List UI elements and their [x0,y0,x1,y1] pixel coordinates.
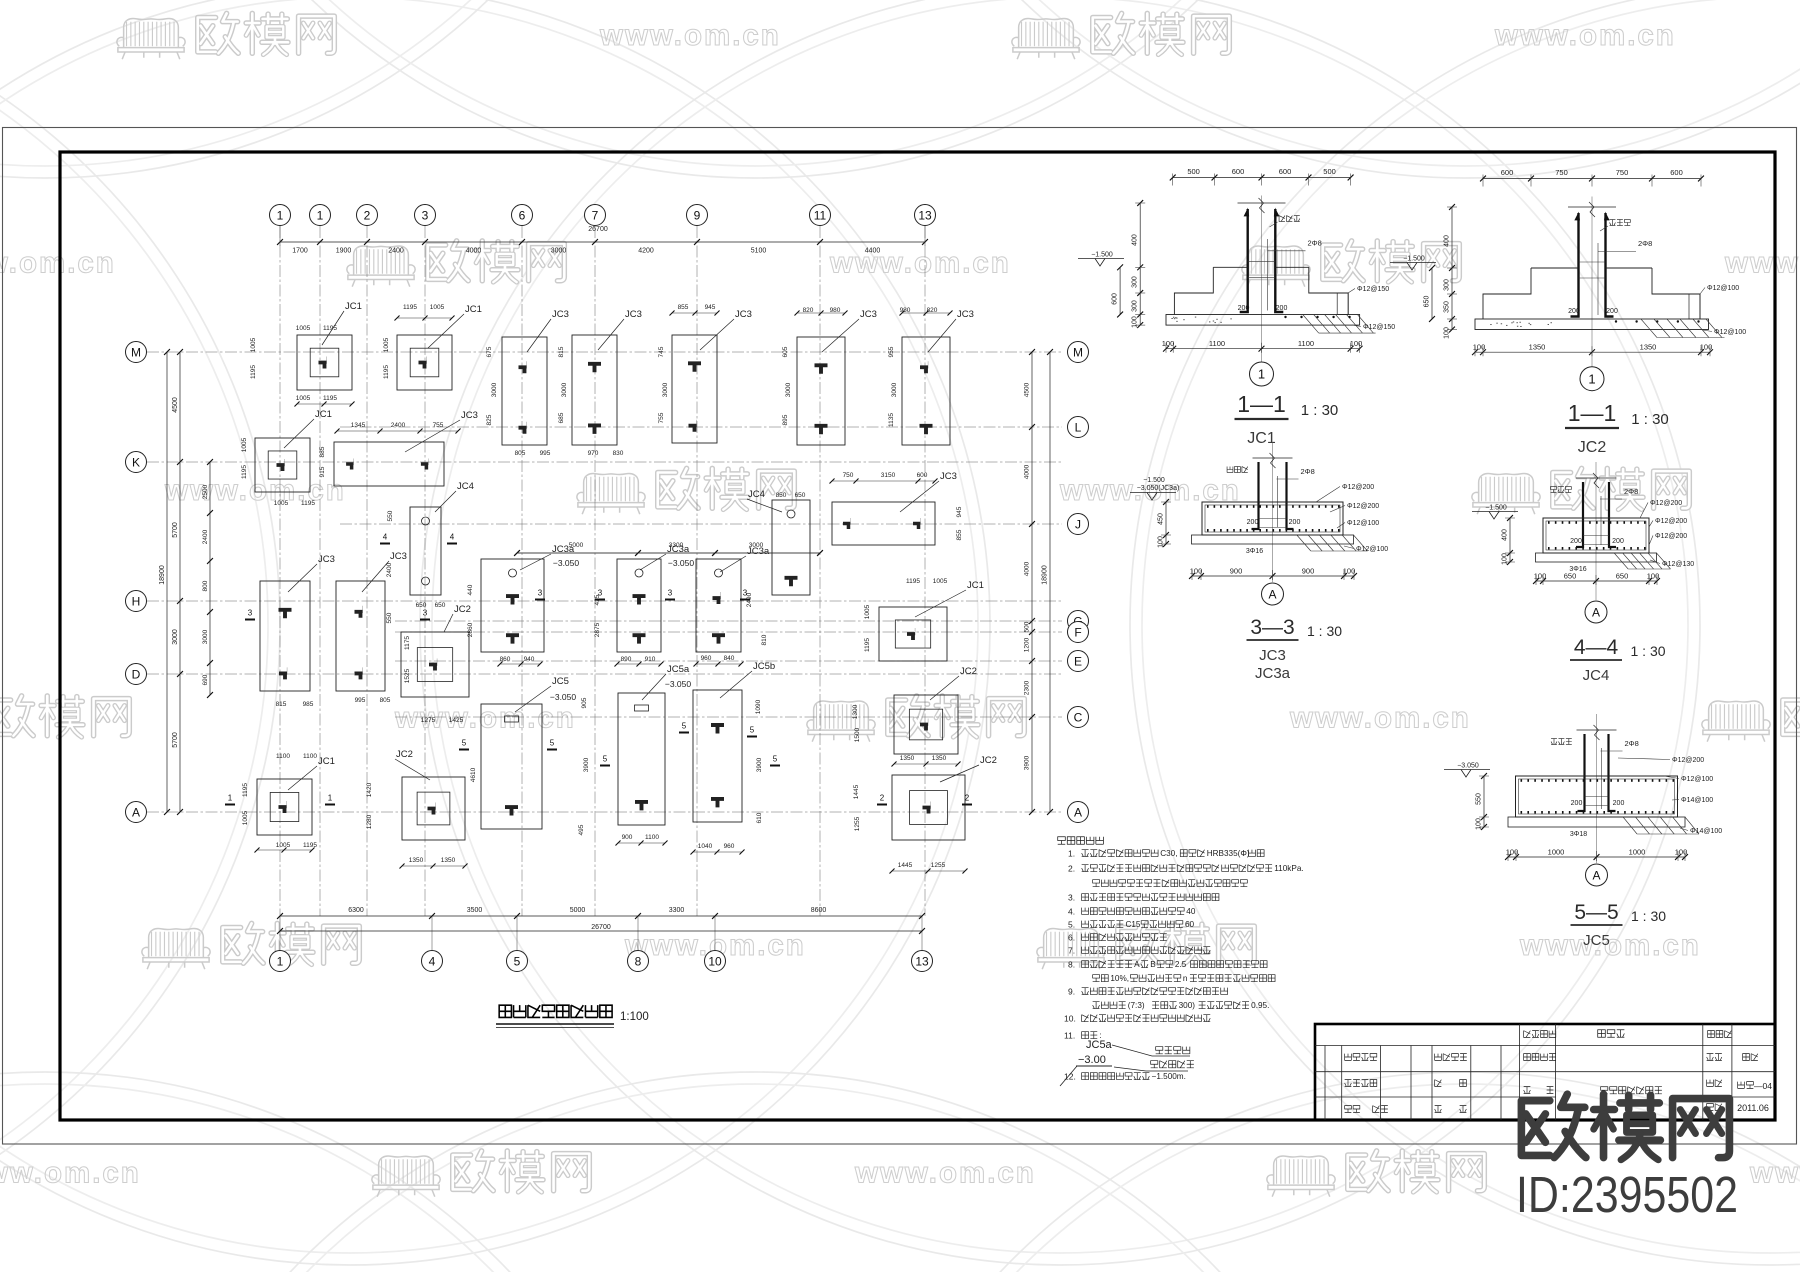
svg-text:2860: 2860 [467,622,474,637]
grid axis lines [147,226,1062,950]
foundation notes [1058,837,1304,1086]
svg-text:JC1: JC1 [315,409,332,420]
svg-text:JC4: JC4 [748,489,765,500]
svg-text:JC3: JC3 [390,551,407,562]
svg-text:−1.500m.: −1.500m. [1152,1072,1186,1081]
svg-text:3000: 3000 [891,382,898,397]
svg-text:Φ12@200: Φ12@200 [1342,484,1374,491]
svg-text:1350: 1350 [900,755,915,762]
page inner thick border [60,152,1775,1120]
svg-text:815: 815 [558,346,565,357]
svg-text:www.om.cn: www.om.cn [0,1157,141,1190]
grid circles bottom [270,951,933,972]
svg-text:4500: 4500 [1024,382,1031,397]
footing JC1 grid1/M [297,335,352,390]
svg-text:800: 800 [202,580,209,591]
svg-text:1100: 1100 [303,753,317,760]
footing JC5 grid5 [481,704,542,829]
svg-text:−3.050(JC3a): −3.050(JC3a) [1137,485,1180,492]
svg-text:945: 945 [956,506,963,517]
svg-text:3300: 3300 [669,542,684,549]
svg-text:850: 850 [776,492,787,499]
svg-text:1005: 1005 [274,500,289,507]
grid circles top [270,205,936,226]
svg-text:1000: 1000 [1629,848,1646,857]
svg-text:Φ12@130: Φ12@130 [1662,561,1694,568]
svg-text:M: M [131,345,141,359]
svg-text:5: 5 [462,739,467,748]
svg-text:A: A [1134,960,1140,969]
detail section 1-1 JC2 [1390,168,1746,456]
svg-text:1350: 1350 [441,857,456,864]
svg-text:4200: 4200 [638,248,654,255]
svg-text:JC5: JC5 [1583,932,1610,949]
footing JC1 grid1/K [255,438,310,492]
svg-text:200: 200 [1247,519,1259,526]
svg-text:1195: 1195 [250,365,257,379]
svg-text:100: 100 [1476,818,1483,830]
footing JC1 right/G [879,607,947,661]
footing JC5a grid8 [618,693,665,825]
svg-text:5: 5 [603,755,608,764]
svg-text:650: 650 [1424,296,1431,308]
svg-text:HRB335(Φ): HRB335(Φ) [1207,849,1250,858]
svg-text:2300: 2300 [1024,680,1031,695]
svg-text:830: 830 [613,450,624,457]
svg-text:Φ12@100: Φ12@100 [1707,285,1739,292]
svg-text:7: 7 [592,208,599,222]
extra small dim lines [254,310,967,873]
svg-text:18900: 18900 [159,565,166,585]
svg-text:495: 495 [578,824,585,835]
svg-text:900: 900 [1230,567,1243,576]
svg-text:400: 400 [1502,529,1509,541]
svg-text:745: 745 [658,346,665,357]
svg-text:350: 350 [1444,301,1451,313]
title block table [1315,1024,1775,1120]
svg-text:−1.500: −1.500 [1485,505,1507,512]
footing JC2 right/C [894,695,958,754]
svg-text:3900: 3900 [1024,755,1031,770]
svg-text:2Φ8: 2Φ8 [1308,238,1322,247]
svg-text:9.: 9. [1068,987,1075,997]
svg-text:www.om.cn: www.om.cn [1724,247,1800,280]
footing JC3 J horizontal [832,502,935,545]
svg-text:200: 200 [1613,800,1625,807]
svg-text:11.: 11. [1064,1031,1075,1041]
svg-text:970: 970 [588,450,599,457]
svg-text:10.: 10. [1064,1014,1076,1024]
svg-text:650: 650 [1616,572,1629,581]
svg-text:1005: 1005 [242,810,249,825]
svg-text:3900: 3900 [756,757,763,772]
svg-text:1090: 1090 [755,699,762,714]
svg-text:100: 100 [1190,567,1203,576]
svg-text:1005: 1005 [864,604,871,619]
svg-text:12.: 12. [1064,1072,1076,1082]
svg-text:600: 600 [1279,167,1292,176]
svg-text:2.: 2. [1068,864,1075,874]
svg-text:895: 895 [782,414,789,425]
svg-text:905: 905 [581,697,588,708]
svg-text:A: A [1074,805,1082,819]
svg-text:4000: 4000 [1024,561,1031,576]
svg-text:−3.00: −3.00 [1078,1054,1106,1066]
footing JC1 grid3/M [397,335,452,390]
svg-text:2011.06: 2011.06 [1737,1103,1769,1113]
svg-text:1: 1 [317,208,324,222]
svg-text:840: 840 [724,655,735,662]
svg-text:A: A [132,805,140,819]
svg-text:5000: 5000 [570,907,586,914]
svg-text:855: 855 [678,304,689,311]
svg-text:1195: 1195 [864,638,871,652]
svg-text:4.: 4. [1068,907,1075,917]
svg-text:1195: 1195 [383,365,390,379]
svg-text:1195: 1195 [301,500,315,507]
svg-text:1: 1 [228,794,233,803]
svg-text:13: 13 [918,208,932,222]
svg-text:F: F [1074,625,1081,639]
svg-text:JC5a: JC5a [667,664,690,675]
svg-text:D: D [132,667,141,681]
svg-text:5.: 5. [1068,920,1075,930]
svg-text:Φ12@200: Φ12@200 [1655,533,1687,540]
svg-text:815: 815 [276,701,287,708]
svg-text:3Φ18: 3Φ18 [1570,831,1587,838]
svg-text:100: 100 [1700,343,1713,352]
svg-text:890: 890 [621,656,632,663]
svg-text:JC1: JC1 [465,304,482,315]
footing JC3 grid9/M [672,335,717,443]
svg-text:0.95.: 0.95. [1251,1001,1269,1010]
svg-text:1005: 1005 [430,304,445,311]
svg-text:450: 450 [1158,513,1165,525]
svg-text:300): 300) [1179,1001,1196,1010]
svg-text:2400: 2400 [386,562,393,577]
svg-text:1445: 1445 [898,862,913,869]
svg-text:550: 550 [387,510,394,521]
svg-text:1005: 1005 [241,437,248,452]
svg-text:110kPa.: 110kPa. [1274,864,1303,873]
svg-text:3.: 3. [1068,893,1075,903]
svg-text:1—1: 1—1 [1568,400,1617,426]
footing JC3 grid1/H-D [260,581,310,691]
svg-text:−1.500: −1.500 [1403,256,1425,263]
svg-text:1195: 1195 [303,842,317,849]
svg-text:400: 400 [1132,234,1139,246]
svg-text:3000: 3000 [662,382,669,397]
svg-text:200: 200 [1238,305,1250,312]
svg-text:−1.500: −1.500 [1143,477,1165,484]
svg-text:685: 685 [558,412,565,423]
svg-text:3500: 3500 [467,907,483,914]
svg-text:8: 8 [635,954,642,968]
svg-text:400: 400 [1444,235,1451,247]
svg-text:300: 300 [1132,276,1139,288]
svg-text:10: 10 [708,954,722,968]
svg-text:1:100: 1:100 [620,1011,649,1023]
svg-text:5: 5 [682,722,687,731]
svg-text:5000: 5000 [569,542,584,549]
svg-text:915: 915 [319,466,326,477]
svg-text:100: 100 [1647,572,1660,581]
svg-text:JC5: JC5 [552,676,569,687]
svg-text:3—3: 3—3 [1250,616,1294,639]
svg-text:JC2: JC2 [960,666,977,677]
svg-text:www.om.cn: www.om.cn [599,19,781,52]
svg-text:1.: 1. [1068,849,1075,859]
svg-text:1: 1 [1258,367,1265,382]
svg-text:1100: 1100 [1298,339,1314,348]
svg-text:Φ12@100: Φ12@100 [1681,776,1713,783]
svg-text:675: 675 [486,346,493,357]
svg-text:600: 600 [1232,167,1245,176]
svg-text:5: 5 [750,726,755,735]
svg-text:1 : 30: 1 : 30 [1631,908,1666,924]
svg-text:1300: 1300 [852,704,859,719]
svg-text:1: 1 [1588,371,1595,386]
svg-text:www.om.cn: www.om.cn [0,247,116,280]
svg-text:3000: 3000 [749,542,764,549]
svg-text:1525: 1525 [404,668,411,683]
svg-text:605: 605 [782,346,789,357]
svg-text:1350: 1350 [1640,343,1657,352]
svg-text:100: 100 [1534,572,1547,581]
svg-text:3: 3 [248,609,253,618]
svg-text:200: 200 [1606,308,1618,315]
grid circles left [126,342,147,823]
svg-text:500: 500 [1323,167,1336,176]
svg-text:3000: 3000 [491,382,498,397]
svg-text:www.om.cn: www.om.cn [1494,19,1676,52]
svg-text:960: 960 [724,843,735,850]
svg-text:600: 600 [1501,168,1514,177]
svg-text:JC2: JC2 [1578,439,1607,456]
svg-text:3900: 3900 [583,757,590,772]
svg-text:1700: 1700 [292,248,308,255]
svg-text:985: 985 [303,701,314,708]
svg-text:1135: 1135 [888,413,895,427]
svg-text:1280: 1280 [366,814,373,829]
svg-text:805: 805 [380,697,391,704]
svg-text:Φ12@200: Φ12@200 [1650,500,1682,507]
svg-text:550: 550 [386,612,393,623]
svg-text:200: 200 [1568,308,1580,315]
svg-text:610: 610 [756,812,763,823]
svg-text:JC2: JC2 [454,604,471,615]
svg-text:690: 690 [202,674,209,685]
svg-text:26700: 26700 [588,226,608,233]
svg-text:3000: 3000 [561,382,568,397]
svg-text:—04: —04 [1754,1081,1772,1091]
svg-text:M: M [1073,345,1083,359]
svg-text:2500: 2500 [202,484,209,499]
svg-text:−3.050: −3.050 [553,558,580,568]
svg-text:440: 440 [467,584,474,595]
svg-text:JC3: JC3 [461,410,478,421]
svg-text:−1.500: −1.500 [1091,252,1113,259]
svg-text:www.om.cn: www.om.cn [854,1157,1036,1190]
svg-text:8600: 8600 [811,907,827,914]
footing JC3 K horizontal [334,442,444,486]
svg-text:www.om.cn: www.om.cn [1289,702,1471,735]
svg-text:100: 100 [1506,848,1519,857]
svg-text:1420: 1420 [366,782,373,797]
svg-text:750: 750 [1555,168,1568,177]
svg-text:1255: 1255 [931,862,946,869]
svg-text:8.: 8. [1068,960,1075,970]
svg-text:−3.050: −3.050 [1457,763,1479,770]
svg-text:1195: 1195 [403,304,417,311]
svg-text:825: 825 [486,414,493,425]
svg-text:550: 550 [1476,793,1483,805]
svg-text:5100: 5100 [751,248,767,255]
svg-text:1195: 1195 [241,465,248,479]
svg-text:C: C [1074,710,1083,724]
svg-text:4500: 4500 [172,397,179,413]
footing JC5b grid10 [693,690,742,822]
svg-text:4: 4 [383,533,388,542]
svg-text:JC4: JC4 [1583,667,1610,684]
svg-text:500: 500 [1024,621,1031,632]
svg-text:945: 945 [705,304,716,311]
svg-text:1255: 1255 [854,816,861,831]
svg-text:B: B [1150,960,1156,969]
svg-text:650: 650 [435,602,446,609]
svg-text:Φ12@100: Φ12@100 [1347,520,1379,527]
svg-text:1005: 1005 [933,578,948,585]
svg-text:JC3: JC3 [552,309,569,320]
footing JC2 grid13/A [892,775,965,840]
footing JC1 grid1/A [257,779,312,835]
footing JC4 left [410,507,441,595]
svg-text:4: 4 [429,954,436,968]
svg-text:100: 100 [1343,567,1356,576]
svg-text:1195: 1195 [323,325,337,332]
svg-text:5: 5 [514,954,521,968]
svg-text:3300: 3300 [669,907,685,914]
svg-text:300: 300 [1132,300,1139,312]
svg-text:2Φ8: 2Φ8 [1301,467,1315,476]
svg-text:1100: 1100 [276,753,290,760]
svg-text:www.om.cn: www.om.cn [1519,929,1701,962]
svg-text:26700: 26700 [591,924,611,931]
svg-text:Φ12@200: Φ12@200 [1672,757,1704,764]
svg-text:900: 900 [622,834,633,841]
svg-text:1350: 1350 [409,857,424,864]
svg-text:5700: 5700 [172,732,179,748]
svg-text:JC3: JC3 [625,309,642,320]
svg-text:2Φ8: 2Φ8 [1625,739,1639,748]
svg-text:755: 755 [658,412,665,423]
detail section 1-1 JC1 [1078,167,1395,447]
svg-text:200: 200 [1571,800,1583,807]
svg-text:2875: 2875 [594,622,601,637]
svg-text:2: 2 [880,794,885,803]
svg-text:2400: 2400 [391,422,406,429]
svg-text:600: 600 [917,472,928,479]
svg-text:650: 650 [795,492,806,499]
svg-text:750: 750 [843,472,854,479]
mid dimension line J-G [514,550,823,556]
svg-text:J: J [1075,517,1081,531]
svg-text:100: 100 [1132,316,1139,328]
svg-text:100: 100 [1675,848,1688,857]
svg-text:ID:2395502: ID:2395502 [1516,1166,1738,1223]
svg-text:805: 805 [515,450,526,457]
svg-text:1: 1 [277,208,284,222]
svg-text:5700: 5700 [172,522,179,538]
svg-text:4: 4 [450,533,455,542]
svg-text:1175: 1175 [404,636,411,650]
svg-text:1275: 1275 [421,717,436,724]
svg-text:10%,: 10%, [1110,974,1129,983]
svg-text:6.: 6. [1068,933,1075,943]
svg-text:JC3: JC3 [318,554,335,565]
svg-text:200: 200 [1276,305,1288,312]
svg-text:650: 650 [1564,572,1577,581]
svg-text:1000: 1000 [1548,848,1565,857]
svg-text:100: 100 [1502,553,1509,565]
svg-text:4—4: 4—4 [1574,636,1619,659]
svg-text:1: 1 [277,954,284,968]
svg-text:1005: 1005 [250,337,257,352]
svg-text:755: 755 [433,422,444,429]
svg-text:1900: 1900 [336,248,352,255]
svg-text:JC3: JC3 [957,309,974,320]
svg-text:960: 960 [701,655,712,662]
svg-text:3: 3 [538,589,543,598]
svg-text:4400: 4400 [865,248,881,255]
svg-text:n: n [1183,974,1188,983]
svg-text:7.: 7. [1068,946,1075,956]
svg-text:1195: 1195 [242,783,249,797]
svg-text:JC2: JC2 [396,749,413,760]
svg-text:100: 100 [1350,339,1363,348]
note line 12 [1064,1072,1186,1082]
svg-text:2Φ8: 2Φ8 [1638,239,1652,248]
svg-text:1005: 1005 [276,842,291,849]
svg-text:−3.050: −3.050 [665,679,692,689]
svg-text:2: 2 [364,208,371,222]
svg-text:3000: 3000 [172,629,179,645]
bottom dimension chain [277,907,925,934]
footing JC3 grid11/M [797,337,845,445]
svg-text:18900: 18900 [1042,565,1049,585]
svg-text:Φ12@200: Φ12@200 [1347,503,1379,510]
footing JC3 grid7/M [572,335,617,445]
svg-text:E: E [1074,654,1082,668]
svg-text:750: 750 [1616,168,1629,177]
svg-text:5: 5 [550,739,555,748]
svg-text:1005: 1005 [383,337,390,352]
svg-text:(7:3): (7:3) [1128,1001,1145,1010]
svg-text:60: 60 [1185,920,1195,929]
svg-text:500: 500 [1187,167,1200,176]
svg-text:C30,: C30, [1160,849,1177,858]
plan small dimension texts [241,304,963,869]
svg-text:4610: 4610 [470,767,477,782]
svg-text:L: L [1075,420,1082,434]
svg-text:2Φ8: 2Φ8 [1624,487,1638,496]
svg-text:3: 3 [423,609,428,618]
svg-text:Φ12@100: Φ12@100 [1356,546,1388,553]
svg-text:1 : 30: 1 : 30 [1301,402,1339,419]
svg-text:H: H [132,594,141,608]
svg-text:3: 3 [668,589,673,598]
svg-text:JC2: JC2 [980,755,997,766]
